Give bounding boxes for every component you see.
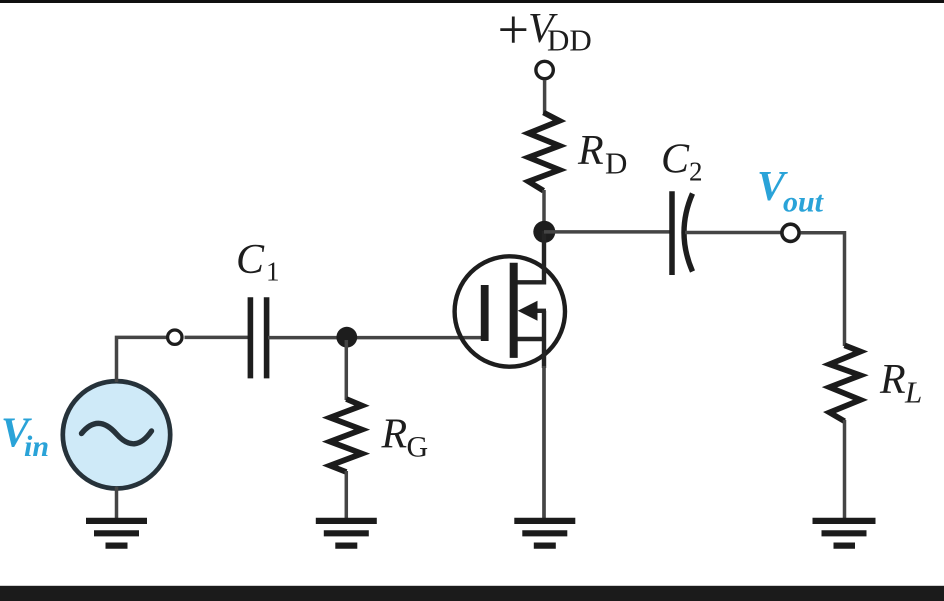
svg-text:out: out xyxy=(783,186,825,219)
node B (drain node dot) xyxy=(533,221,555,243)
input terminal (open circle) xyxy=(168,330,182,344)
Q1 channel bar xyxy=(510,263,518,358)
svg-text:C: C xyxy=(661,137,690,183)
wire C2 to Vout terminal xyxy=(685,231,781,235)
svg-text:L: L xyxy=(904,375,922,410)
top border bar xyxy=(0,0,944,3)
svg-text:in: in xyxy=(24,430,49,463)
wire terminal to C1 xyxy=(185,336,249,340)
capacitor C2 curved plate xyxy=(684,194,693,272)
wire terminal to RD xyxy=(543,80,547,114)
ground (RG) xyxy=(316,521,377,546)
svg-text:R: R xyxy=(381,412,408,458)
wire Vout terminal to RL xyxy=(801,233,845,346)
wire RD to drain node xyxy=(542,190,546,226)
resistor RL xyxy=(830,345,861,421)
svg-text:2: 2 xyxy=(689,157,703,187)
wire RG to ground xyxy=(345,471,349,519)
svg-text:R: R xyxy=(879,357,906,403)
transistor Q1 (D-MOSFET) body circle xyxy=(455,256,565,366)
sine wave inside source xyxy=(82,423,152,443)
svg-text:1: 1 xyxy=(266,257,280,287)
Q1 gate bar xyxy=(481,285,489,341)
VDD terminal (open circle) xyxy=(536,61,553,78)
capacitor C1 plates xyxy=(250,297,266,378)
svg-text:+: + xyxy=(498,0,530,62)
svg-text:D: D xyxy=(605,146,627,181)
node A (gate node dot) xyxy=(336,327,357,348)
svg-text:DD: DD xyxy=(547,23,592,58)
bottom border bar xyxy=(0,586,944,601)
ground (Vin) xyxy=(86,521,147,546)
Q1 substrate arrow lead xyxy=(535,309,546,313)
svg-text:C: C xyxy=(236,237,265,283)
source Vin (AC source circle) xyxy=(63,381,170,488)
ground (source) xyxy=(514,521,575,546)
svg-text:G: G xyxy=(407,430,429,463)
wire source to ground xyxy=(542,366,546,519)
wire Vin bottom to ground xyxy=(115,487,119,519)
Q1 drain lead xyxy=(518,231,545,285)
resistor RG xyxy=(330,399,362,472)
wire Vin top to input terminal xyxy=(117,337,168,382)
Vout terminal (open circle) xyxy=(782,224,799,241)
svg-text:R: R xyxy=(577,128,604,174)
capacitor C2 flat plate xyxy=(669,191,675,275)
resistor RD xyxy=(529,113,560,191)
wire RL to ground xyxy=(843,420,847,519)
ground (RL) xyxy=(813,521,876,546)
wire C1 to gate (through node) xyxy=(268,336,486,340)
wire drain node to C2 xyxy=(544,230,670,234)
Q1 source lead xyxy=(518,311,545,368)
wire node to RG xyxy=(345,340,349,400)
